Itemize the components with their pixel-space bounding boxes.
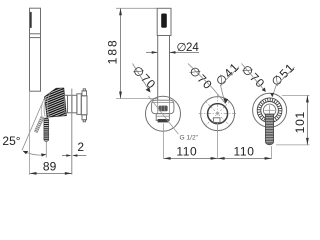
svg-text:110: 110 (176, 144, 197, 158)
svg-text:110: 110 (234, 144, 255, 158)
svg-text:101: 101 (293, 111, 307, 133)
svg-text:25°: 25° (2, 134, 20, 148)
svg-text:89: 89 (43, 160, 57, 174)
svg-text:24: 24 (186, 42, 199, 54)
svg-text:2: 2 (77, 140, 84, 154)
svg-text:G 1/2”: G 1/2” (180, 135, 198, 142)
svg-text:188: 188 (105, 38, 119, 64)
